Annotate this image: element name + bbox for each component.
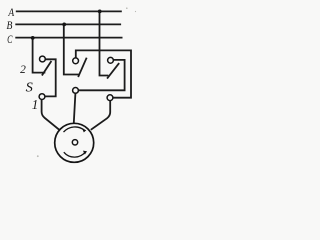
svg-text:A: A bbox=[8, 5, 15, 19]
svg-text:1: 1 bbox=[32, 97, 39, 112]
svg-text:B: B bbox=[7, 18, 13, 32]
svg-text:C: C bbox=[7, 32, 13, 46]
svg-text:2: 2 bbox=[20, 62, 26, 76]
svg-text:S: S bbox=[26, 81, 33, 96]
